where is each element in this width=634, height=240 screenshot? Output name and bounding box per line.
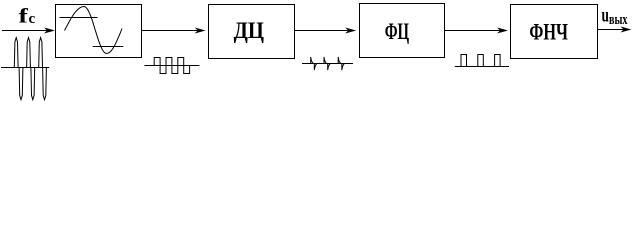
limiter upper clip line (60, 17, 98, 19)
waveform meander square wave (154, 58, 189, 74)
waveform spikes axis (302, 63, 353, 65)
svg-text:ФЦ: ФЦ (385, 19, 409, 44)
svg-text:ДЦ: ДЦ (234, 18, 264, 43)
svg-text:u: u (602, 4, 609, 26)
block U4 FNCH box (511, 5, 598, 59)
block U2 DC box (209, 5, 295, 59)
limiter lower clip line (93, 46, 124, 48)
wire limiter to DC (142, 30, 203, 32)
waveform pulses axis (455, 66, 509, 68)
input waveform axis (1, 67, 49, 69)
block U1 limiter box (56, 5, 142, 58)
svg-text:вых: вых (609, 12, 628, 28)
svg-text:ФНЧ: ФНЧ (529, 19, 568, 44)
waveform unipolar pulses (461, 55, 500, 67)
svg-text:c: c (29, 11, 36, 27)
input waveform sine bursts (14, 38, 46, 100)
wire input arrow into limiter (2, 30, 50, 32)
wire output arrow (598, 29, 628, 31)
limiter sine wave (65, 7, 123, 54)
waveform meander axis (144, 65, 199, 67)
wire DC to FC (295, 30, 354, 32)
block U3 FC box (360, 4, 445, 58)
wire FC to FNC (445, 30, 505, 32)
waveform spikes differentiated pulses (311, 57, 345, 70)
